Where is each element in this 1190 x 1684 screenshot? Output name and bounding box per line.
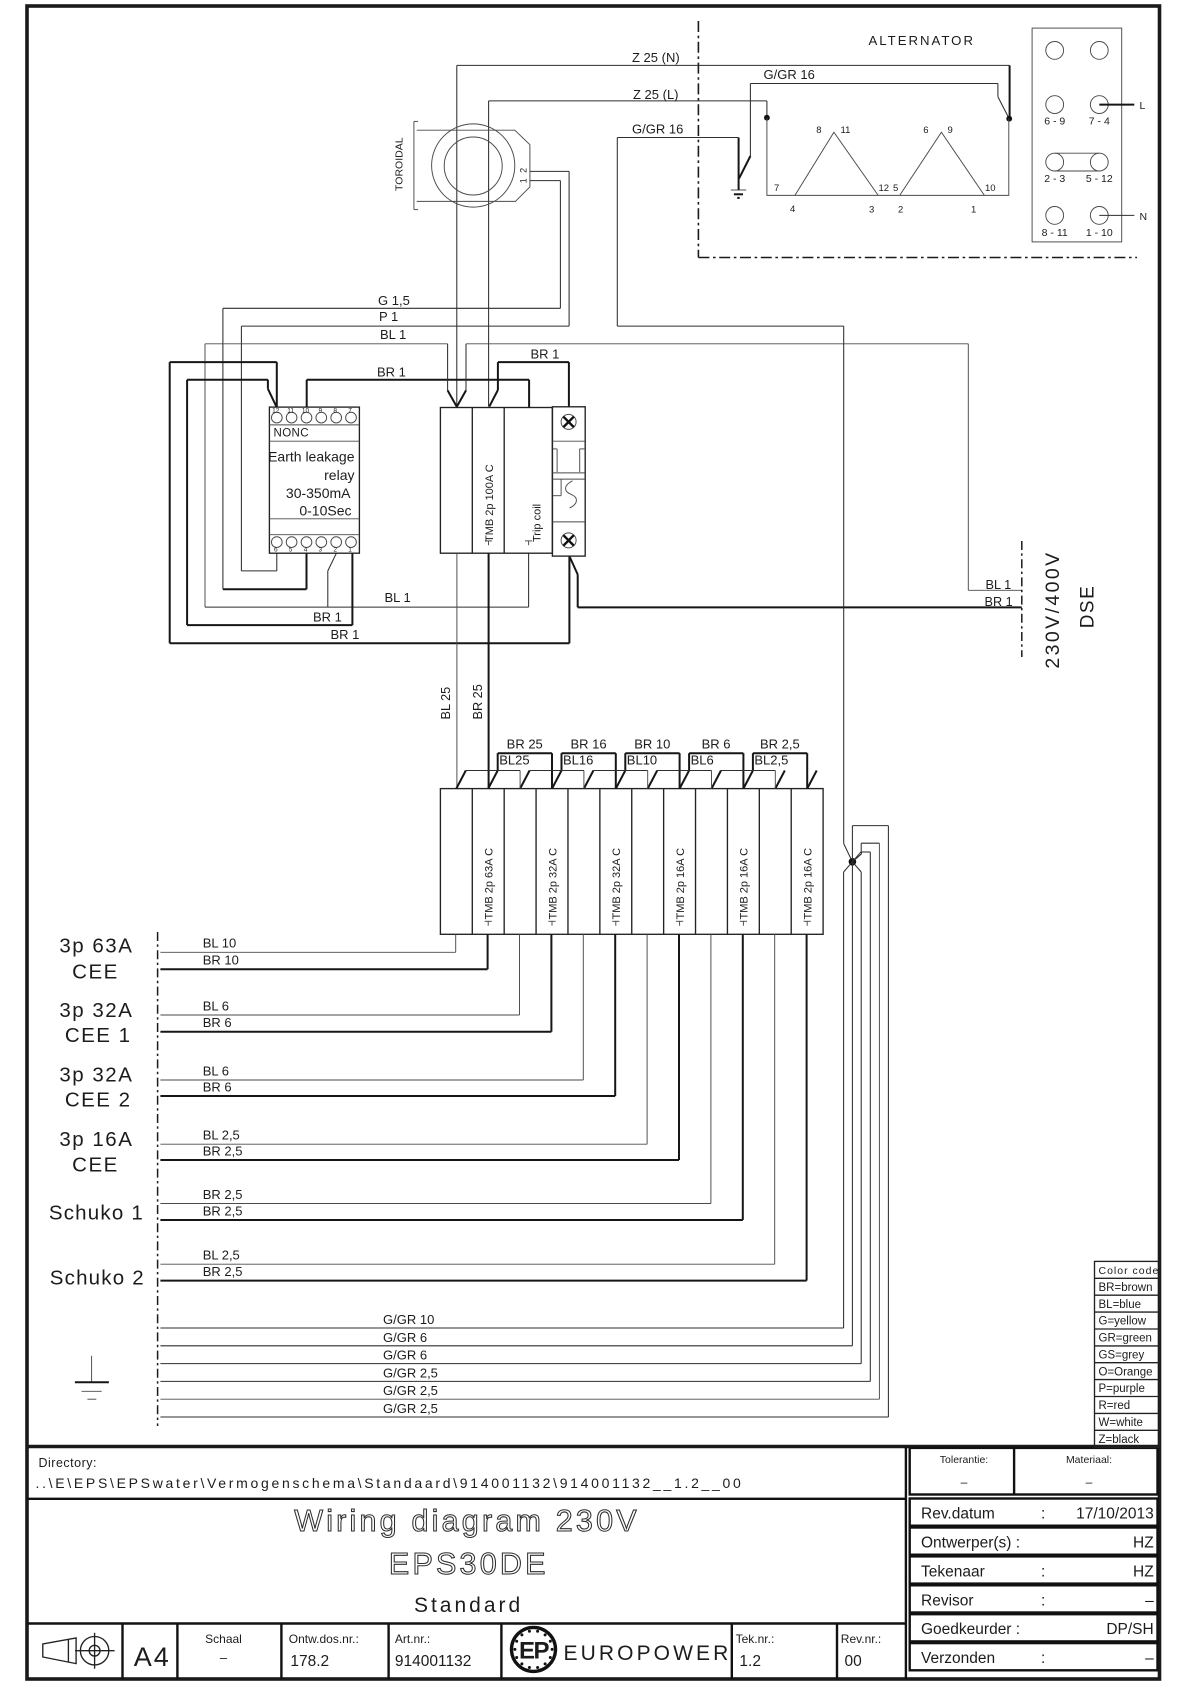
title row Revisor bbox=[910, 1585, 1158, 1612]
svg-text:BR 2,5: BR 2,5 bbox=[203, 1143, 243, 1158]
title row Verzonden bbox=[910, 1643, 1158, 1670]
svg-text:BR 25: BR 25 bbox=[507, 737, 543, 752]
svg-text:BL 1: BL 1 bbox=[385, 590, 411, 605]
svg-text:3p 32A: 3p 32A bbox=[59, 999, 133, 1022]
terminal circle row2 right bbox=[1090, 96, 1108, 114]
svg-text:BL10: BL10 bbox=[627, 753, 657, 768]
entry connector chevron col8 bbox=[680, 771, 690, 789]
bus BR 25 bbox=[498, 753, 552, 788]
svg-text:17/10/2013: 17/10/2013 bbox=[1076, 1506, 1154, 1523]
wire BL1 to DSE horizontal bbox=[466, 343, 968, 345]
alternator boundary (dash-dot) bbox=[697, 21, 699, 258]
toroid core outer bbox=[432, 124, 515, 207]
relay bottom terminal 5 bbox=[286, 537, 297, 548]
svg-text:P=purple: P=purple bbox=[1099, 1383, 1145, 1395]
wire relay terminal 12 drop bbox=[276, 362, 278, 407]
wire BR1 DSE vertical bbox=[577, 575, 579, 608]
svg-text:Materiaal:: Materiaal: bbox=[1066, 1454, 1112, 1466]
wire Z25(L) drop to winding left end bbox=[766, 101, 768, 118]
wire relay terminal 1 drop bbox=[351, 553, 353, 625]
entry connector chevron col10 bbox=[743, 771, 753, 789]
svg-text:Schuko 2: Schuko 2 bbox=[50, 1266, 145, 1289]
svg-text:10: 10 bbox=[985, 183, 996, 194]
svg-text:Tek.nr.:: Tek.nr.: bbox=[736, 1632, 775, 1646]
breaker bank box bbox=[440, 789, 823, 935]
wire BL 6 output 3 bbox=[160, 934, 519, 1015]
cell divider x=731.8 bbox=[731, 1624, 733, 1680]
svg-text::: : bbox=[1041, 1506, 1045, 1523]
bus BR 10 bbox=[625, 753, 679, 788]
svg-text:10: 10 bbox=[302, 408, 310, 415]
svg-text:3p 32A: 3p 32A bbox=[59, 1064, 133, 1087]
bus BL 16 bbox=[530, 770, 584, 772]
cell divider x=177.4 bbox=[176, 1624, 178, 1680]
title row Rev.datum bbox=[910, 1499, 1158, 1526]
wire BR 6 output 4 bbox=[160, 934, 551, 1032]
svg-text:relay: relay bbox=[324, 467, 354, 483]
svg-text:BR 6: BR 6 bbox=[702, 737, 731, 752]
entry stub col11 bbox=[774, 771, 776, 789]
svg-text:TMB 2p 16A C: TMB 2p 16A C bbox=[675, 848, 687, 920]
svg-text:–: – bbox=[961, 1475, 968, 1489]
svg-text:EP: EP bbox=[519, 1638, 550, 1665]
svg-text:BL=blue: BL=blue bbox=[1099, 1299, 1142, 1311]
svg-text:GS=grey: GS=grey bbox=[1099, 1350, 1145, 1362]
wire BR 2,5 output 12 bbox=[160, 934, 806, 1280]
relay top terminal 9 bbox=[316, 412, 327, 423]
wire relay terminal 10 drop bbox=[306, 380, 308, 407]
title block vertical main separator bbox=[905, 1447, 907, 1680]
entry connector chevron col5 bbox=[584, 771, 594, 789]
title area divider bbox=[27, 1498, 906, 1500]
svg-text:Standard: Standard bbox=[414, 1594, 523, 1617]
wire BR1 loop to relay t1 bbox=[187, 624, 352, 626]
wire bottom screw diagonal bbox=[569, 556, 577, 574]
terminal circle row3 left bbox=[1046, 153, 1064, 171]
terminal circle row2 left bbox=[1046, 96, 1064, 114]
wire G/GR 2,5 (1) bbox=[160, 852, 870, 1381]
toroid core inner bbox=[444, 137, 502, 195]
svg-text:9: 9 bbox=[948, 125, 953, 136]
svg-text:BL 2,5: BL 2,5 bbox=[203, 1248, 240, 1263]
wire far-left loop vertical bbox=[169, 362, 171, 643]
wire G/GR16 down to earth junction bbox=[843, 326, 845, 844]
terminal link 2-3 / 5-12 bbox=[1055, 152, 1100, 154]
svg-text:G/GR 6: G/GR 6 bbox=[383, 1330, 427, 1345]
wire BR1 entry2 to top screw bbox=[498, 361, 569, 363]
entry stub col9 bbox=[711, 771, 713, 789]
relay bottom terminal 2 bbox=[331, 537, 342, 548]
svg-text:G 1,5: G 1,5 bbox=[378, 293, 410, 308]
svg-text:BR 16: BR 16 bbox=[570, 737, 606, 752]
ground symbol (output earth) bbox=[75, 1356, 109, 1399]
bottom terminal mark x=488.5 bbox=[485, 541, 492, 545]
svg-text:G/GR 10: G/GR 10 bbox=[383, 1312, 434, 1327]
svg-text:Ontwerper(s) :: Ontwerper(s) : bbox=[921, 1535, 1020, 1552]
svg-text:BR 2,5: BR 2,5 bbox=[203, 1187, 243, 1202]
wire BR1 t12 second horizontal bbox=[187, 379, 268, 381]
svg-text:BL 6: BL 6 bbox=[203, 1063, 229, 1078]
svg-text:G/GR 6: G/GR 6 bbox=[383, 1348, 427, 1363]
svg-text::: : bbox=[1041, 1592, 1045, 1609]
svg-text:914001132: 914001132 bbox=[395, 1653, 471, 1670]
entry stub col7 bbox=[647, 771, 649, 789]
title block top border bbox=[27, 1445, 1160, 1449]
svg-text:Tolerantie:: Tolerantie: bbox=[940, 1454, 988, 1466]
svg-text:CEE: CEE bbox=[72, 1153, 119, 1176]
svg-text:BL 25: BL 25 bbox=[439, 687, 453, 720]
svg-text:G/GR 16: G/GR 16 bbox=[632, 122, 683, 137]
svg-text:G/GR 2,5: G/GR 2,5 bbox=[383, 1383, 438, 1398]
svg-text:6 - 9: 6 - 9 bbox=[1044, 116, 1065, 128]
bus BL 6 bbox=[657, 770, 711, 772]
wire Z25(N) vertical through toroid to breaker pin bbox=[456, 65, 458, 406]
svg-text:–: – bbox=[1086, 1475, 1093, 1489]
entry connector chevron col12 bbox=[807, 771, 817, 789]
svg-text:12: 12 bbox=[272, 408, 280, 415]
wire relay t2 drop bbox=[327, 571, 329, 607]
bus BL 25 bbox=[466, 770, 520, 772]
svg-text:–: – bbox=[220, 1650, 228, 1665]
svg-text:Trip coil: Trip coil bbox=[532, 504, 544, 542]
wire relay terminal 6 drop bbox=[276, 553, 278, 571]
cell divider x=122.5 bbox=[121, 1624, 123, 1680]
wire second loop vertical bbox=[186, 380, 188, 625]
bus BR 16 bbox=[562, 753, 616, 788]
wire entry2 funnel leg diagonal bbox=[489, 390, 498, 407]
svg-text::: : bbox=[1041, 1563, 1045, 1580]
entry connector chevron col4 bbox=[552, 771, 562, 789]
wire G/GR 10 bbox=[160, 862, 852, 1328]
title row Goedkeurder : bbox=[910, 1614, 1158, 1641]
svg-text:Rev.datum: Rev.datum bbox=[921, 1506, 995, 1523]
wire P1 left vertical bbox=[240, 326, 242, 571]
relay top terminal 8 bbox=[331, 412, 342, 423]
wire G/GR16 drop to earth bbox=[749, 84, 751, 157]
entry connector chevron col3 bbox=[520, 771, 530, 789]
relay top terminal 11 bbox=[286, 412, 297, 423]
winding delta 1 bbox=[795, 132, 878, 195]
svg-text:GR=green: GR=green bbox=[1099, 1333, 1152, 1345]
wire G/GR 2,5 (2) bbox=[160, 843, 879, 1399]
wire BL 2,5 output 11 bbox=[160, 934, 774, 1264]
svg-text:P 1: P 1 bbox=[379, 309, 398, 324]
svg-text:BR 2,5: BR 2,5 bbox=[760, 737, 800, 752]
wire corner drop bbox=[267, 380, 269, 389]
wire Z25(N) horizontal bbox=[457, 64, 1010, 66]
svg-text:8 - 11: 8 - 11 bbox=[1042, 227, 1068, 239]
bus BL 2,5 bbox=[721, 770, 775, 772]
svg-text:2: 2 bbox=[333, 547, 337, 554]
wire relay terminal 4 drop bbox=[306, 553, 308, 589]
svg-text:BL 6: BL 6 bbox=[203, 998, 229, 1013]
svg-text:Art.nr.:: Art.nr.: bbox=[395, 1632, 430, 1646]
relay top terminal 7 bbox=[346, 412, 357, 423]
bottom terminal mark x=528.6 bbox=[525, 541, 532, 545]
svg-text:HZ: HZ bbox=[1133, 1563, 1154, 1580]
entry connector chevron col11 bbox=[775, 771, 785, 789]
svg-text:1.2: 1.2 bbox=[739, 1653, 761, 1670]
svg-text:3p 16A: 3p 16A bbox=[59, 1128, 133, 1151]
svg-text::: : bbox=[1041, 1650, 1045, 1667]
machine boundary dash-dot (outputs) bbox=[157, 932, 159, 1426]
bus BL 10 bbox=[593, 770, 647, 772]
svg-text:BR 2,5: BR 2,5 bbox=[203, 1264, 243, 1279]
junction dot winding left bbox=[764, 115, 770, 121]
svg-text:TMB 2p 63A C: TMB 2p 63A C bbox=[484, 848, 496, 920]
svg-text:2: 2 bbox=[519, 168, 529, 173]
svg-text:BR=brown: BR=brown bbox=[1099, 1282, 1153, 1294]
wire BR 6 output 6 bbox=[160, 934, 615, 1096]
svg-text:Schaal: Schaal bbox=[205, 1632, 242, 1646]
svg-text:2: 2 bbox=[898, 205, 903, 216]
wire toroid pin1 drop to G1,5 bbox=[559, 181, 561, 309]
svg-text:BR 1: BR 1 bbox=[531, 347, 560, 362]
svg-text:1: 1 bbox=[348, 547, 352, 554]
svg-text:ALTERNATOR: ALTERNATOR bbox=[869, 33, 975, 48]
trip coil S symbol bbox=[566, 481, 577, 508]
wire relay t2 diagonal tap bbox=[328, 553, 337, 571]
bottom row divider bbox=[27, 1622, 906, 1624]
winding delta 2 bbox=[900, 132, 985, 195]
svg-text:BL6: BL6 bbox=[691, 753, 714, 768]
bottom terminal mark col2 bbox=[485, 921, 492, 926]
entry connector chevron col1 bbox=[456, 771, 466, 789]
svg-text:11: 11 bbox=[841, 125, 851, 136]
svg-text:Z 25 (N): Z 25 (N) bbox=[632, 50, 680, 65]
svg-text:BR 2,5: BR 2,5 bbox=[203, 1203, 243, 1218]
EUROPOWER logo bbox=[512, 1627, 556, 1671]
main breaker TMB 2p 100A C bbox=[440, 408, 552, 554]
wire G/GR16 to ground bbox=[738, 138, 740, 191]
wire P1 bottom to relay t6 bbox=[241, 570, 276, 572]
svg-text:NONC: NONC bbox=[274, 428, 309, 440]
coil step bbox=[560, 480, 562, 496]
wire G/GR16 alternator horizontal bbox=[750, 83, 998, 85]
relay bottom terminal 4 bbox=[301, 537, 312, 548]
svg-text:BR 6: BR 6 bbox=[203, 1015, 232, 1030]
wire G/GR16 long vertical bbox=[616, 138, 618, 327]
earth junction node bbox=[849, 858, 857, 866]
wire BL1 into DSE bbox=[968, 589, 1022, 591]
title row Ontwerper(s) : bbox=[910, 1528, 1158, 1555]
wire BL 10 output 1 bbox=[160, 934, 455, 952]
svg-text:BR 1: BR 1 bbox=[331, 627, 360, 642]
screw symbol at y=540.4 bbox=[561, 533, 576, 548]
svg-text:G/GR 16: G/GR 16 bbox=[764, 67, 815, 82]
terminal circle row1 left bbox=[1046, 42, 1064, 60]
svg-text:7 - 4: 7 - 4 bbox=[1089, 116, 1110, 128]
svg-text:G=yellow: G=yellow bbox=[1099, 1316, 1147, 1328]
alternator winding frame bbox=[767, 118, 1009, 196]
relay top terminal 12 bbox=[271, 412, 282, 423]
svg-text:TMB 2p 16A C: TMB 2p 16A C bbox=[802, 848, 814, 920]
svg-text:BR 1: BR 1 bbox=[377, 365, 406, 380]
svg-text:Color code: Color code bbox=[1099, 1265, 1160, 1277]
bus BR 2,5 bbox=[753, 753, 807, 788]
bus BR 6 bbox=[689, 753, 743, 788]
cell divider x=501.4 bbox=[500, 1624, 502, 1680]
wire G/GR16 to earth junction horizontal bbox=[617, 325, 843, 327]
svg-text:–: – bbox=[1145, 1650, 1154, 1667]
svg-text:1: 1 bbox=[971, 205, 976, 216]
svg-text:BR 10: BR 10 bbox=[634, 737, 670, 752]
svg-text:7: 7 bbox=[774, 183, 779, 194]
first-angle projection symbol bbox=[43, 1633, 115, 1669]
svg-text:Z=black: Z=black bbox=[1099, 1434, 1140, 1446]
entry connector chevron col9 bbox=[712, 771, 722, 789]
alternator terminal block bbox=[1032, 28, 1122, 242]
svg-text:Goedkeurder :: Goedkeurder : bbox=[921, 1621, 1020, 1638]
wire G/GR 6 straight bbox=[160, 862, 852, 1346]
wire BR1 into DSE bbox=[578, 606, 1022, 608]
color code table bbox=[1095, 1261, 1160, 1447]
svg-text:Tekenaar: Tekenaar bbox=[921, 1563, 985, 1580]
svg-text:12: 12 bbox=[879, 183, 890, 194]
svg-text:CEE: CEE bbox=[72, 960, 119, 983]
svg-text:EPS30DE: EPS30DE bbox=[389, 1547, 549, 1581]
wire L stub bbox=[1099, 104, 1134, 106]
svg-text:TMB 2p 100A C: TMB 2p 100A C bbox=[484, 464, 496, 542]
svg-text:L: L bbox=[1140, 100, 1146, 112]
terminal circle row1 right bbox=[1090, 42, 1108, 60]
wire trip coil column bottom bbox=[528, 553, 530, 607]
wire BL 6 output 5 bbox=[160, 934, 583, 1080]
wire diagonal into earth junction bbox=[844, 844, 853, 862]
svg-text:BL25: BL25 bbox=[499, 753, 529, 768]
svg-text:EUROPOWER: EUROPOWER bbox=[564, 1642, 732, 1665]
wire BR1 relay t10 to trip column bbox=[307, 379, 529, 381]
wire bottom screw drop bbox=[568, 556, 570, 643]
svg-text:Earth leakage: Earth leakage bbox=[268, 449, 355, 465]
svg-text:3p 63A: 3p 63A bbox=[59, 935, 133, 958]
svg-text:..\E\EPS\EPSwater\Vermogensche: ..\E\EPS\EPSwater\Vermogenschema\Standaa… bbox=[36, 1475, 744, 1491]
wire diagonal into relay t12 bbox=[268, 389, 277, 407]
svg-text:3: 3 bbox=[318, 547, 322, 554]
relay top terminal 10 bbox=[301, 412, 312, 423]
relay bottom terminal 6 bbox=[271, 537, 282, 548]
earth leakage relay U1 bbox=[268, 407, 359, 553]
svg-text:1: 1 bbox=[519, 178, 529, 183]
wire BR 10 output 2 bbox=[160, 934, 487, 969]
ground symbol (alternator earth) bbox=[731, 190, 746, 198]
svg-text:2 - 3: 2 - 3 bbox=[1044, 173, 1065, 185]
svg-text:O=Orange: O=Orange bbox=[1099, 1366, 1153, 1378]
cell divider x=388.6 bbox=[387, 1624, 389, 1680]
svg-text:BR 25: BR 25 bbox=[471, 684, 485, 719]
svg-text:230V/400V: 230V/400V bbox=[1042, 550, 1064, 668]
bottom terminal mark col12 bbox=[804, 921, 811, 926]
toroidal current transformer bbox=[394, 121, 530, 209]
svg-text:BL2,5: BL2,5 bbox=[754, 753, 788, 768]
tolerantie/materiaal box bbox=[910, 1448, 1158, 1495]
svg-text:TOROIDAL: TOROIDAL bbox=[394, 137, 406, 191]
wire G/GR16 right vertical bbox=[997, 84, 999, 97]
svg-text:Ontw.dos.nr.:: Ontw.dos.nr.: bbox=[289, 1632, 359, 1646]
svg-text:BL 10: BL 10 bbox=[203, 936, 237, 951]
trip coil device box bbox=[552, 407, 585, 556]
svg-text:5: 5 bbox=[289, 547, 293, 554]
svg-text:G/GR 2,5: G/GR 2,5 bbox=[383, 1401, 438, 1416]
svg-text:TMB 2p 32A C: TMB 2p 32A C bbox=[547, 848, 559, 920]
wire top screw drop bbox=[568, 362, 570, 407]
svg-text:BR 1: BR 1 bbox=[313, 610, 342, 625]
wire toroid pin1 bbox=[530, 180, 561, 182]
wire BL1 DSE vertical bbox=[967, 344, 969, 591]
svg-text:BL 2,5: BL 2,5 bbox=[203, 1128, 240, 1143]
svg-text:7: 7 bbox=[348, 408, 352, 415]
wire trip column top entry bbox=[528, 380, 530, 408]
DSE boundary dash-dot bbox=[1021, 541, 1023, 657]
wire Z25(L) vertical through toroid to breaker pin bbox=[488, 101, 490, 407]
bottom terminal mark col10 bbox=[740, 921, 747, 926]
svg-text:W=white: W=white bbox=[1099, 1417, 1143, 1429]
wire BR 25 feeder bbox=[488, 553, 490, 788]
svg-text:CEE 1: CEE 1 bbox=[65, 1024, 132, 1047]
svg-text:5 - 12: 5 - 12 bbox=[1086, 173, 1113, 185]
svg-text:BL 1: BL 1 bbox=[380, 327, 406, 342]
screw symbol at y=421.9 bbox=[561, 414, 576, 429]
wire G1,5 horizontal bbox=[223, 307, 561, 309]
entry connector chevron col7 bbox=[648, 771, 658, 789]
svg-text:DP/SH: DP/SH bbox=[1106, 1621, 1153, 1638]
toroid mounting plate bbox=[417, 130, 530, 201]
svg-text:8: 8 bbox=[816, 125, 821, 136]
svg-text:BL16: BL16 bbox=[563, 753, 593, 768]
wire toroid pin2 drop to P1 bbox=[568, 171, 570, 326]
terminal circle row4 left bbox=[1046, 207, 1064, 225]
entry connector chevron col2 bbox=[488, 771, 498, 789]
wire N stub bbox=[1099, 214, 1134, 216]
svg-text:G/GR 2,5: G/GR 2,5 bbox=[383, 1365, 438, 1380]
svg-text:5: 5 bbox=[893, 183, 898, 194]
bottom terminal mark col4 bbox=[548, 921, 555, 926]
svg-text:6: 6 bbox=[923, 125, 928, 136]
entry stub col3 bbox=[519, 771, 521, 789]
svg-text:11: 11 bbox=[287, 408, 294, 415]
svg-text:Revisor: Revisor bbox=[921, 1592, 974, 1609]
svg-text:Directory:: Directory: bbox=[39, 1456, 97, 1470]
svg-text:8: 8 bbox=[333, 408, 337, 415]
svg-text:TMB 2p 32A C: TMB 2p 32A C bbox=[611, 848, 623, 920]
svg-text:DSE: DSE bbox=[1078, 585, 1099, 629]
wire G/GR 6 (2) bbox=[160, 862, 861, 1364]
wire BL1 horizontal to breaker entry bbox=[205, 343, 448, 345]
junction dot winding right bbox=[1006, 116, 1012, 122]
wire BL 25 feeder bbox=[456, 553, 458, 788]
wire G1,5 left vertical bbox=[222, 308, 224, 589]
terminal circle row4 right bbox=[1090, 207, 1108, 225]
wire toroid pin2 bbox=[530, 170, 569, 172]
bottom terminal mark col8 bbox=[676, 921, 683, 926]
entry stub col5 bbox=[583, 771, 585, 789]
relay bottom terminal 1 bbox=[346, 537, 357, 548]
svg-text:TMB 2p 16A C: TMB 2p 16A C bbox=[739, 848, 751, 920]
cell divider x=281.4 bbox=[280, 1624, 282, 1680]
wire BR 2,5 output 10 bbox=[160, 934, 742, 1220]
svg-text:A4: A4 bbox=[134, 1642, 171, 1672]
svg-text:4: 4 bbox=[304, 547, 308, 554]
svg-text:Verzonden: Verzonden bbox=[921, 1650, 995, 1667]
terminal circle row3 right bbox=[1090, 153, 1108, 171]
svg-text:3: 3 bbox=[869, 205, 874, 216]
wire BR 2,5 output 9 bbox=[160, 934, 711, 1203]
wire G/GR16 left horizontal bbox=[617, 137, 738, 139]
svg-text:6: 6 bbox=[274, 547, 278, 554]
svg-text:Schuko 1: Schuko 1 bbox=[49, 1202, 144, 1225]
svg-text:00: 00 bbox=[845, 1653, 863, 1670]
svg-text:BR 10: BR 10 bbox=[203, 953, 239, 968]
